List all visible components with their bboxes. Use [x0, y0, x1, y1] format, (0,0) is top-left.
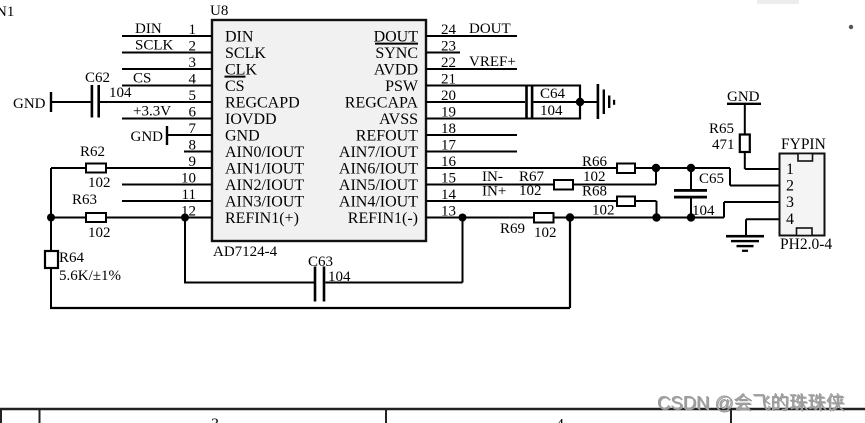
svg-text:AIN7/IOUT: AIN7/IOUT — [339, 144, 418, 161]
U8 right pin numbers 24-13 — [441, 22, 457, 220]
node +3.3V label — [133, 104, 171, 120]
svg-text:1: 1 — [786, 161, 794, 178]
svg-text:REGCAPD: REGCAPD — [225, 95, 300, 112]
title block divider x39 — [39, 409, 41, 423]
node junction pin12 to C63 — [181, 214, 189, 222]
svg-text:DIN: DIN — [135, 21, 162, 37]
svg-text:102: 102 — [88, 175, 111, 191]
svg-text:GND: GND — [727, 89, 760, 105]
svg-text:REFOUT: REFOUT — [356, 128, 418, 145]
svg-text:2: 2 — [786, 178, 794, 195]
svg-text:102: 102 — [88, 225, 111, 241]
svg-text:104: 104 — [692, 203, 715, 219]
op-amp U1 : ADC IC U8 AD7124-4 body — [210, 3, 426, 260]
svg-text:+3.3V: +3.3V — [133, 104, 171, 120]
svg-text:REGCAPA: REGCAPA — [345, 95, 419, 112]
svg-text:471: 471 — [712, 137, 735, 153]
node junction C65 top — [687, 164, 695, 172]
capacitor C62 104 — [85, 70, 132, 118]
wire pin17 stub — [426, 151, 517, 153]
svg-text:4: 4 — [786, 211, 794, 228]
resistor R69 102 — [500, 213, 557, 241]
wire pin9 through R62 — [51, 167, 212, 169]
wire R65 to connector pin1 — [745, 152, 780, 169]
wire pin23 stub — [426, 52, 460, 54]
svg-text:CSDN @会飞的珠珠侠: CSDN @会飞的珠珠侠 — [657, 392, 844, 413]
wire vertical x185 down to C63 — [184, 218, 186, 283]
resistor R63 102 — [72, 192, 111, 241]
connector pin number 3 — [786, 194, 794, 211]
svg-text:3: 3 — [211, 416, 219, 423]
wire pin21 — [426, 85, 580, 87]
wire pin16 through R66 — [426, 167, 730, 169]
svg-text:GND: GND — [225, 128, 260, 145]
ground earth sideways at C64 — [597, 84, 616, 119]
capacitor C65 104 — [674, 171, 724, 219]
svg-text:PSW: PSW — [385, 78, 419, 95]
title block zone number 3 — [211, 416, 219, 423]
svg-text:AIN1/IOUT: AIN1/IOUT — [225, 161, 304, 178]
svg-text:PH2.0-4: PH2.0-4 — [780, 236, 832, 253]
svg-text:GND: GND — [131, 129, 164, 145]
node SCLK label — [135, 38, 174, 54]
wire C63 left segment — [184, 282, 314, 284]
svg-text:U8: U8 — [210, 3, 228, 19]
node N1 clipped label top-left — [0, 4, 14, 20]
svg-text:4: 4 — [556, 417, 564, 423]
svg-text:SCLK: SCLK — [225, 45, 266, 62]
ground GND power port above R65 — [727, 89, 761, 105]
svg-text:102: 102 — [519, 183, 542, 199]
wire pin2 SCLK — [122, 52, 212, 54]
svg-text:AIN0/IOUT: AIN0/IOUT — [225, 144, 304, 161]
ground GND port left of C62 — [13, 92, 51, 112]
wire vertical x462.5 up to pin13 — [462, 218, 464, 283]
svg-text:IOVDD: IOVDD — [225, 111, 277, 128]
svg-text:R62: R62 — [80, 144, 105, 160]
wire vertical x580 joining pins 21 20 19 — [579, 85, 581, 120]
wire pin7 GND stub — [167, 134, 212, 136]
svg-text:102: 102 — [534, 225, 557, 241]
svg-text:5.6K/±1%: 5.6K/±1% — [59, 268, 121, 284]
title block border line — [0, 408, 865, 410]
resistor R62 102 — [80, 144, 111, 191]
svg-text:C63: C63 — [308, 254, 333, 270]
wire pin1 DIN — [122, 35, 212, 37]
svg-text:C62: C62 — [85, 70, 110, 86]
wire pin11 stub — [122, 200, 212, 202]
wire C65 bottom vertical — [690, 199, 692, 218]
wire left bus vertical through R64 — [50, 168, 52, 308]
connector pin number 4 — [786, 211, 794, 228]
node IN- label — [482, 169, 503, 185]
wire C64 net to ground — [580, 101, 597, 103]
wire GND to R65 — [744, 104, 746, 135]
wire pin24 DOUT — [426, 35, 517, 37]
stray dot top right — [849, 25, 853, 29]
wire C63 right segment — [325, 282, 462, 284]
svg-text:REFIN1(-): REFIN1(-) — [348, 210, 418, 227]
wire pin3 — [122, 68, 212, 70]
wire R67 up to node A — [655, 168, 657, 185]
U8 left pin numbers 1-12 — [181, 22, 197, 220]
ground GND port at pin7 — [131, 126, 168, 145]
svg-text:C65: C65 — [699, 171, 724, 187]
node junction B at R68 — [652, 213, 660, 221]
U8 left pin labels — [225, 29, 305, 228]
connector pin number 1 — [786, 161, 794, 178]
svg-text:DOUT: DOUT — [469, 21, 511, 37]
capacitor C64 104 — [525, 85, 565, 120]
svg-text:GND: GND — [13, 96, 46, 112]
node junction C64 net — [576, 98, 584, 106]
capacitor C63 104 — [308, 254, 351, 302]
wire vertical x570 to pin13 net — [569, 218, 571, 309]
wire pin10 stub — [122, 184, 212, 186]
title block divider x731 — [730, 409, 732, 423]
wire pin4 CS — [122, 85, 212, 87]
svg-text:C64: C64 — [540, 86, 566, 102]
wire GND to C62 — [51, 101, 91, 103]
node IN+ label — [482, 184, 506, 200]
svg-text:AIN5/IOUT: AIN5/IOUT — [339, 177, 418, 194]
watermark CSDN — [657, 392, 846, 414]
resistor R66 102 — [582, 154, 635, 185]
node junction A R66-R67 — [652, 164, 660, 172]
resistor R68 102 — [582, 184, 635, 219]
svg-text:102: 102 — [592, 203, 615, 219]
ground earth below connector pin4 — [726, 235, 764, 252]
wire pin20 to C64 — [426, 101, 580, 103]
resistor R67 102 — [519, 169, 573, 199]
node junction C65 bottom — [687, 213, 695, 221]
svg-text:DIN: DIN — [225, 29, 254, 46]
wire bottom rail — [50, 307, 570, 309]
svg-text:REFIN1(+): REFIN1(+) — [225, 210, 299, 227]
wire pin18 stub — [426, 134, 517, 136]
svg-text:R68: R68 — [582, 184, 607, 200]
node junction pin13 bottom rail — [566, 213, 574, 221]
wire pin13 through R69 — [426, 217, 724, 219]
svg-text:VREF+: VREF+ — [469, 54, 516, 70]
wire pin14 through R68 — [426, 200, 657, 202]
svg-text:R69: R69 — [500, 221, 525, 237]
wire pin22 VREF+ — [426, 68, 517, 70]
node CS label — [133, 71, 151, 87]
svg-text:AIN4/IOUT: AIN4/IOUT — [339, 194, 418, 211]
svg-text:R65: R65 — [709, 121, 734, 137]
title block zone number 4 — [556, 417, 564, 423]
svg-text:SCLK: SCLK — [135, 38, 174, 54]
wire pin6 +3.3V — [122, 118, 212, 120]
svg-text:AVSS: AVSS — [379, 111, 418, 128]
svg-text:AVDD: AVDD — [374, 62, 418, 79]
wire node A jog to connector pin2 — [730, 168, 780, 186]
wire pin5 right of C62 — [100, 101, 213, 103]
svg-text:AIN3/IOUT: AIN3/IOUT — [225, 194, 304, 211]
svg-text:R64: R64 — [59, 250, 85, 266]
node junction R63 left — [47, 214, 55, 222]
wire R68 down to node B — [656, 201, 658, 218]
node DOUT label — [469, 21, 511, 37]
svg-text:R66: R66 — [582, 154, 608, 170]
svg-text:CS: CS — [225, 78, 245, 95]
svg-text:AIN6/IOUT: AIN6/IOUT — [339, 161, 418, 178]
svg-text:N1: N1 — [0, 4, 14, 20]
svg-text:R63: R63 — [72, 192, 97, 208]
svg-text:3: 3 — [786, 194, 794, 211]
wire pin12 through R63 — [51, 217, 212, 219]
svg-text:SYNC: SYNC — [375, 45, 418, 62]
resistor R64 5.6K — [45, 250, 121, 284]
svg-text:IN+: IN+ — [482, 184, 506, 200]
svg-text:AD7124-4: AD7124-4 — [213, 244, 278, 260]
wire pin15 through R67 — [426, 184, 656, 186]
wire pin8 stub — [184, 151, 212, 153]
svg-text:FYPIN: FYPIN — [781, 136, 826, 153]
wire node B jog to connector pin3 — [724, 202, 780, 218]
connector J1 FYPIN PH2.0-4 — [780, 136, 833, 253]
svg-text:104: 104 — [540, 103, 563, 119]
node VREF+ label — [469, 54, 516, 70]
node DIN label — [135, 21, 162, 37]
wire pin19 — [426, 118, 580, 120]
U8 right pin labels — [339, 29, 419, 228]
title block divider left edge — [0, 409, 2, 423]
connector pin number 2 — [786, 178, 794, 195]
svg-text:AIN2/IOUT: AIN2/IOUT — [225, 177, 304, 194]
node junction pin13 at x462.5 — [459, 214, 467, 222]
wire C65 top vertical — [690, 168, 692, 189]
svg-text:CS: CS — [133, 71, 151, 87]
svg-text:104: 104 — [109, 85, 132, 101]
title block divider x386 — [385, 409, 387, 423]
wire connector pin4 to earth — [746, 219, 780, 236]
faint header strip top right — [757, 0, 799, 4]
resistor R65 471 — [709, 121, 750, 153]
